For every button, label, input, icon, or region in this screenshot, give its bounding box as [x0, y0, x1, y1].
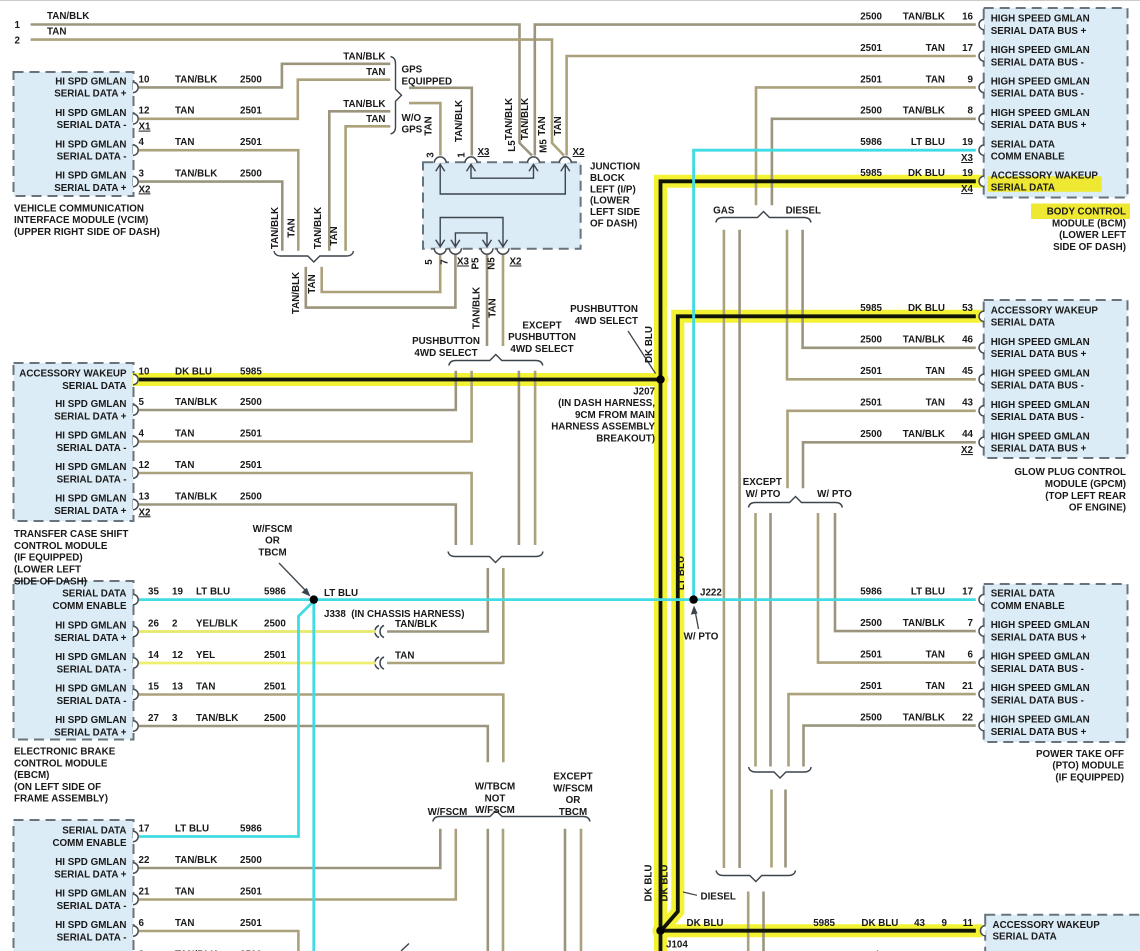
TCSCM pin 13 bump — [133, 499, 138, 509]
svg-text:SERIAL DATA BUS -: SERIAL DATA BUS - — [991, 695, 1084, 706]
module VCIM box — [14, 72, 134, 196]
wire 2 TAN top-left to junction M5 — [31, 40, 564, 156]
svg-text:(LOWER LEFT: (LOWER LEFT — [1059, 230, 1126, 241]
svg-text:SIDE OF DASH): SIDE OF DASH) — [14, 576, 87, 587]
svg-text:TAN: TAN — [196, 681, 215, 692]
svg-text:LT BLU: LT BLU — [196, 587, 230, 598]
callout arrow W/PTO to J222 — [695, 611, 699, 630]
svg-text:P5: P5 — [471, 257, 482, 270]
svg-text:(PTO) MODULE: (PTO) MODULE — [1052, 761, 1124, 772]
wire GPCM pin 43 TAN down — [788, 411, 976, 489]
svg-text:COMM ENABLE: COMM ENABLE — [52, 838, 126, 849]
svg-text:44: 44 — [962, 429, 973, 440]
svg-text:HI SPD GMLAN: HI SPD GMLAN — [55, 399, 126, 410]
inline connector on EBCM YEL/BLK wire — [380, 626, 384, 638]
svg-text:2501: 2501 — [240, 106, 262, 117]
svg-text:TAN: TAN — [926, 650, 945, 661]
wire GAS pair TAN left — [723, 230, 726, 868]
svg-text:HI SPD GMLAN: HI SPD GMLAN — [55, 171, 126, 182]
svg-text:SERIAL DATA BUS -: SERIAL DATA BUS - — [991, 412, 1084, 423]
svg-text:2500: 2500 — [264, 713, 286, 724]
junction block top pin bump 1 — [465, 157, 477, 163]
VCIM/GPS merge brace — [274, 251, 354, 262]
svg-text:35: 35 — [148, 587, 159, 598]
svg-text:LT BLU: LT BLU — [911, 137, 945, 148]
svg-text:HI SPD GMLAN: HI SPD GMLAN — [55, 77, 126, 88]
svg-text:2500: 2500 — [860, 429, 882, 440]
svg-text:TAN/BLK: TAN/BLK — [313, 207, 324, 249]
svg-text:6: 6 — [139, 918, 145, 929]
junction block bottom pin bump 5 — [434, 248, 446, 254]
wire LT BLU 5986 horizontal EBCM to PTO pin 17 — [139, 598, 976, 601]
svg-text:SERIAL DATA -: SERIAL DATA - — [57, 932, 127, 943]
svg-text:DIESEL: DIESEL — [786, 206, 821, 217]
svg-text:TAN: TAN — [366, 114, 385, 125]
module bottom-left module box — [14, 820, 134, 951]
svg-text:X2: X2 — [510, 257, 523, 268]
svg-text:HIGH SPEED GMLAN: HIGH SPEED GMLAN — [991, 108, 1090, 119]
wire merged TAN to junction pin 5 — [322, 254, 441, 292]
svg-text:OF DASH): OF DASH) — [590, 219, 637, 230]
svg-text:COMM ENABLE: COMM ENABLE — [991, 152, 1065, 163]
junction block interior connection pin7-P5 — [455, 233, 487, 246]
wire EXCEPT-W/FSCM pair TAN to page bottom — [580, 829, 583, 951]
svg-text:X2: X2 — [573, 147, 586, 158]
svg-text:NOT: NOT — [485, 793, 506, 804]
wire GPS TAN/BLK to junction pin 1 — [409, 88, 472, 156]
inline connector on EBCM YEL wire — [380, 657, 384, 669]
svg-text:J222: J222 — [700, 588, 722, 599]
svg-text:SERIAL DATA BUS +: SERIAL DATA BUS + — [991, 632, 1087, 643]
svg-text:5985: 5985 — [813, 918, 835, 929]
svg-text:3: 3 — [139, 169, 145, 180]
svg-text:SERIAL DATA +: SERIAL DATA + — [54, 869, 127, 880]
svg-text:N5: N5 — [487, 257, 498, 270]
bottom-right module pin bump — [980, 926, 985, 936]
wire TAN/BLK junction L5 to BCM pin 16 — [535, 25, 976, 156]
highlighted wire DK BLU trunk J207 down to page bottom (highlight band) — [654, 380, 667, 951]
svg-text:TAN/BLK: TAN/BLK — [196, 713, 238, 724]
highlighted wire DK BLU J104 to bottom-right module (highlight band) — [661, 924, 976, 937]
wire W/PTO TAN to PTO pin 6 — [818, 513, 976, 663]
svg-text:7: 7 — [968, 618, 974, 629]
svg-text:5985: 5985 — [860, 303, 882, 314]
svg-text:2500: 2500 — [240, 855, 262, 866]
wire GPCM pin 44 TAN/BLK down — [803, 442, 976, 488]
highlighted wire DK BLU trunk J207 to BCM X4 (conductor) — [661, 181, 976, 379]
svg-text:1: 1 — [457, 152, 468, 158]
junction block bottom pin bump N5 — [497, 248, 509, 254]
svg-text:43: 43 — [962, 398, 973, 409]
svg-text:4WD SELECT: 4WD SELECT — [414, 348, 477, 359]
svg-text:MODULE (GPCM): MODULE (GPCM) — [1045, 479, 1126, 490]
svg-text:MODULE (BCM): MODULE (BCM) — [1052, 218, 1126, 229]
svg-text:BREAKOUT): BREAKOUT) — [596, 433, 655, 444]
svg-text:(EBCM): (EBCM) — [14, 770, 49, 781]
svg-text:FRAME ASSEMBLY): FRAME ASSEMBLY) — [14, 794, 108, 805]
svg-text:BODY CONTROL: BODY CONTROL — [1047, 207, 1126, 218]
svg-text:DK BLU: DK BLU — [660, 864, 671, 901]
svg-text:LEFT (I/P): LEFT (I/P) — [590, 184, 636, 195]
svg-text:14: 14 — [148, 650, 159, 661]
bottom-left module pin 6 bump — [133, 926, 138, 936]
svg-text:TAN: TAN — [926, 43, 945, 54]
wire PTO pin 22 TAN/BLK down — [804, 726, 976, 767]
junction block bottom pin arrow x=440.2 — [436, 240, 445, 247]
wire final pair TAN to page bottom — [747, 892, 750, 951]
svg-text:HI SPD GMLAN: HI SPD GMLAN — [55, 684, 126, 695]
svg-text:12: 12 — [139, 106, 150, 117]
svg-text:7: 7 — [440, 259, 451, 265]
svg-text:EXCEPT: EXCEPT — [553, 772, 592, 783]
junction block top pin arrow x=565.3 — [561, 164, 570, 171]
svg-text:(TOP LEFT REAR: (TOP LEFT REAR — [1045, 491, 1126, 502]
junction dot J104 — [656, 927, 664, 935]
junction dot J222 — [689, 595, 697, 603]
svg-text:OR: OR — [265, 536, 280, 547]
svg-text:4: 4 — [139, 428, 145, 439]
junction dot J338 — [310, 595, 318, 603]
GAS/PTO merge brace bottom — [716, 871, 795, 882]
wire VCIM pin 3 TAN/BLK down to merge brace — [139, 182, 282, 251]
svg-text:HIGH SPEED GMLAN: HIGH SPEED GMLAN — [991, 77, 1090, 88]
svg-text:2500: 2500 — [264, 618, 286, 629]
svg-text:4: 4 — [139, 137, 145, 148]
svg-text:5: 5 — [424, 259, 435, 265]
svg-text:22: 22 — [139, 855, 150, 866]
module BCM box — [984, 8, 1128, 198]
junction block bottom pin bump 7 — [449, 248, 461, 254]
wire stub3 bypass — [518, 371, 521, 545]
svg-text:1: 1 — [14, 20, 20, 31]
wire stub1 to TCSCM pin 5 — [139, 371, 456, 410]
svg-text:13: 13 — [139, 491, 150, 502]
svg-text:SERIAL DATA BUS +: SERIAL DATA BUS + — [991, 727, 1087, 738]
svg-text:2501: 2501 — [240, 918, 262, 929]
svg-text:21: 21 — [962, 681, 973, 692]
svg-text:OF ENGINE): OF ENGINE) — [1069, 503, 1126, 514]
PTO merge brace — [749, 767, 812, 778]
wire stub2 to TCSCM pin 4 — [139, 371, 472, 442]
wire merged TAN/BLK to junction pin 7 — [306, 254, 456, 308]
svg-text:HIGH SPEED GMLAN: HIGH SPEED GMLAN — [991, 620, 1090, 631]
svg-text:TAN/BLK: TAN/BLK — [175, 74, 217, 85]
svg-text:VEHICLE COMMUNICATION: VEHICLE COMMUNICATION — [14, 203, 144, 214]
bottom-left module pin 22 bump — [133, 863, 138, 873]
svg-text:PUSHBUTTON: PUSHBUTTON — [570, 304, 638, 315]
GPCM pin 43 bump — [979, 406, 984, 416]
svg-text:ELECTRONIC BRAKE: ELECTRONIC BRAKE — [14, 747, 116, 758]
wire VCIM pin 4 TAN down to merge brace — [139, 150, 298, 251]
pointer line DIESEL near J104 — [683, 892, 697, 895]
svg-text:W/FSCM: W/FSCM — [553, 783, 593, 794]
svg-text:9: 9 — [968, 74, 974, 85]
svg-text:HIGH SPEED GMLAN: HIGH SPEED GMLAN — [991, 431, 1090, 442]
junction block interior connection pin3-M5 — [440, 165, 565, 194]
svg-text:SERIAL DATA: SERIAL DATA — [991, 139, 1055, 150]
svg-text:SERIAL DATA -: SERIAL DATA - — [57, 696, 127, 707]
svg-text:W/FSCM: W/FSCM — [475, 805, 515, 816]
svg-text:BLOCK: BLOCK — [590, 173, 625, 184]
PTO pin 22 bump — [979, 720, 984, 730]
svg-text:LT BLU: LT BLU — [676, 556, 687, 590]
svg-text:TAN: TAN — [47, 26, 66, 37]
svg-text:W/FSCM: W/FSCM — [428, 807, 468, 818]
svg-text:TAN: TAN — [926, 74, 945, 85]
svg-text:TBCM: TBCM — [258, 548, 286, 559]
wire W/PTO TAN/BLK to PTO pin 7 — [835, 513, 976, 631]
svg-text:LT BLU: LT BLU — [911, 587, 945, 598]
svg-text:2501: 2501 — [264, 650, 286, 661]
svg-text:W/ PTO: W/ PTO — [746, 489, 781, 500]
svg-text:HI SPD GMLAN: HI SPD GMLAN — [55, 857, 126, 868]
wire EXCEPT-W/FSCM pair TAN/BLK to page bottom — [564, 829, 567, 951]
svg-text:HI SPD GMLAN: HI SPD GMLAN — [55, 652, 126, 663]
svg-text:10: 10 — [139, 74, 150, 85]
wire EBCM pin 27 TAN/BLK down — [139, 726, 488, 762]
svg-text:SERIAL DATA BUS -: SERIAL DATA BUS - — [991, 381, 1084, 392]
svg-text:HI SPD GMLAN: HI SPD GMLAN — [55, 108, 126, 119]
svg-text:DK BLU: DK BLU — [644, 326, 655, 363]
svg-text:PUSHBUTTON: PUSHBUTTON — [508, 332, 576, 343]
junction block top pin bump M5 — [559, 157, 571, 163]
svg-text:8: 8 — [968, 106, 974, 117]
highlighted wire DK BLU trunk J207 down to page bottom (conductor) — [659, 380, 663, 951]
svg-text:EXCEPT: EXCEPT — [743, 477, 782, 488]
svg-text:EXCEPT: EXCEPT — [522, 320, 561, 331]
svg-text:TAN/BLK: TAN/BLK — [903, 713, 945, 724]
svg-text:TAN: TAN — [926, 681, 945, 692]
BCM pin 19 bump — [979, 145, 984, 155]
svg-text:HIGH SPEED GMLAN: HIGH SPEED GMLAN — [991, 368, 1090, 379]
svg-text:19: 19 — [172, 587, 183, 598]
junction block top pin arrow x=440.2 — [436, 164, 445, 171]
svg-text:2501: 2501 — [240, 137, 262, 148]
junction block bottom pin arrow x=503 — [499, 240, 508, 247]
svg-text:TAN: TAN — [175, 886, 194, 897]
BCM pin 19 text highlight — [988, 176, 1102, 192]
svg-text:M5: M5 — [539, 139, 550, 153]
GAS/DIESEL split brace — [716, 212, 811, 223]
BCM pin 19 bump — [979, 176, 984, 186]
wire LT BLU J338 branch to page bottom — [312, 600, 315, 951]
junction block bottom pin arrow x=487 — [483, 240, 492, 247]
svg-text:DK BLU: DK BLU — [687, 918, 724, 929]
svg-text:26: 26 — [148, 618, 159, 629]
EBCM pin 35 bump — [133, 594, 138, 604]
svg-text:2501: 2501 — [240, 460, 262, 471]
svg-text:X2: X2 — [139, 184, 152, 195]
svg-text:TAN/BLK: TAN/BLK — [903, 618, 945, 629]
svg-text:TRANSFER CASE SHIFT: TRANSFER CASE SHIFT — [14, 529, 128, 540]
wire GPS TAN to junction pin 3 — [409, 103, 440, 155]
wire VCIM pin 10 TAN/BLK to GPS brace — [139, 64, 390, 88]
svg-text:LEFT SIDE: LEFT SIDE — [590, 207, 641, 218]
svg-text:SERIAL DATA -: SERIAL DATA - — [57, 443, 127, 454]
svg-text:SERIAL DATA BUS +: SERIAL DATA BUS + — [991, 120, 1087, 131]
bottom-left module pin 17 bump — [133, 831, 138, 841]
svg-text:TAN: TAN — [537, 116, 548, 135]
svg-text:5985: 5985 — [860, 168, 882, 179]
svg-text:2501: 2501 — [860, 43, 882, 54]
svg-text:SERIAL DATA -: SERIAL DATA - — [57, 120, 127, 131]
svg-text:SERIAL DATA +: SERIAL DATA + — [54, 183, 127, 194]
svg-text:HIGH SPEED GMLAN: HIGH SPEED GMLAN — [991, 715, 1090, 726]
junction block top pin arrow x=533.5 — [529, 164, 538, 171]
wire W/FSCM TAN/BLK to bottom-left pin 22 — [139, 829, 440, 868]
BCM pin 17 bump — [979, 51, 984, 61]
junction block bottom pin bump P5 — [481, 248, 493, 254]
VCIM pin 4 bump — [133, 145, 138, 155]
svg-text:SERIAL DATA: SERIAL DATA — [62, 381, 126, 392]
svg-text:TAN: TAN — [395, 651, 414, 662]
svg-text:SERIAL DATA BUS +: SERIAL DATA BUS + — [991, 26, 1087, 37]
svg-text:22: 22 — [962, 713, 973, 724]
svg-text:16: 16 — [962, 12, 973, 23]
svg-text:TAN/BLK: TAN/BLK — [175, 169, 217, 180]
svg-text:X3: X3 — [478, 147, 491, 158]
junction dot J207 — [656, 375, 664, 383]
wire final pair TAN/BLK to page bottom — [762, 892, 765, 951]
EBCM pin 15 bump — [133, 689, 138, 699]
wire EXCEPT-W/PTO pair TAN/BLK — [769, 513, 772, 767]
PTO pin 21 bump — [979, 689, 984, 699]
svg-text:TBCM: TBCM — [559, 807, 587, 818]
svg-text:9: 9 — [942, 918, 948, 929]
svg-text:CONTROL MODULE: CONTROL MODULE — [14, 758, 108, 769]
svg-text:2500: 2500 — [860, 618, 882, 629]
wire stub4 bypass — [534, 371, 537, 545]
svg-text:5985: 5985 — [240, 366, 262, 377]
svg-text:53: 53 — [962, 303, 973, 314]
svg-text:3: 3 — [172, 713, 178, 724]
svg-text:SERIAL DATA: SERIAL DATA — [62, 826, 126, 837]
svg-text:DK BLU: DK BLU — [644, 864, 655, 901]
svg-text:TAN/BLK: TAN/BLK — [175, 855, 217, 866]
wire DIESEL TAN to GPCM pin 45 — [787, 230, 976, 379]
svg-text:GPS: GPS — [402, 125, 423, 136]
svg-text:2501: 2501 — [860, 74, 882, 85]
svg-text:ACCESSORY WAKEUP: ACCESSORY WAKEUP — [991, 305, 1099, 316]
junction block top pin bump 3 — [434, 157, 446, 163]
svg-text:SERIAL DATA -: SERIAL DATA - — [57, 474, 127, 485]
svg-text:5986: 5986 — [860, 137, 882, 148]
svg-text:45: 45 — [962, 366, 973, 377]
svg-text:2501: 2501 — [240, 886, 262, 897]
svg-text:X3: X3 — [457, 257, 470, 268]
svg-text:X1: X1 — [139, 122, 152, 133]
PTO pin 7 bump — [979, 626, 984, 636]
svg-text:W/ PTO: W/ PTO — [684, 632, 719, 643]
svg-text:SERIAL DATA BUS -: SERIAL DATA BUS - — [991, 89, 1084, 100]
J207 junction highlight ring — [653, 372, 669, 388]
svg-text:HI SPD GMLAN: HI SPD GMLAN — [55, 139, 126, 150]
svg-text:HIGH SPEED GMLAN: HIGH SPEED GMLAN — [991, 14, 1090, 25]
svg-text:12: 12 — [139, 460, 150, 471]
svg-text:(IN DASH HARNESS,: (IN DASH HARNESS, — [558, 398, 655, 409]
svg-text:HI SPD GMLAN: HI SPD GMLAN — [55, 889, 126, 900]
TCSCM pin 5 bump — [133, 405, 138, 415]
svg-text:2501: 2501 — [860, 650, 882, 661]
svg-text:17: 17 — [962, 43, 973, 54]
wire TAN BCM pin 9 stub — [756, 87, 976, 205]
svg-text:HIGH SPEED GMLAN: HIGH SPEED GMLAN — [991, 337, 1090, 348]
svg-text:X2: X2 — [961, 445, 974, 456]
VCIM pin 3 bump — [133, 176, 138, 186]
module bottom-right box — [985, 915, 1140, 951]
svg-text:X3: X3 — [961, 153, 974, 164]
svg-text:2500: 2500 — [240, 169, 262, 180]
highlighted wire DK BLU GPCM53 branch to J104 (conductor) — [662, 316, 976, 930]
svg-text:TAN: TAN — [553, 116, 564, 135]
svg-text:TAN/BLK: TAN/BLK — [47, 11, 89, 22]
svg-text:SERIAL DATA +: SERIAL DATA + — [54, 411, 127, 422]
module PTO box — [984, 584, 1128, 742]
svg-text:SERIAL DATA +: SERIAL DATA + — [54, 633, 127, 644]
J104 junction highlight ring — [653, 923, 669, 939]
svg-text:DK BLU: DK BLU — [908, 168, 945, 179]
svg-text:TAN/BLK: TAN/BLK — [175, 397, 217, 408]
svg-text:21: 21 — [139, 886, 150, 897]
TCSCM pin 10 bump — [133, 374, 138, 384]
svg-text:TAN: TAN — [175, 460, 194, 471]
svg-text:SERIAL DATA BUS +: SERIAL DATA BUS + — [991, 444, 1087, 455]
GPCM pin 44 bump — [979, 437, 984, 447]
callout arrow to J338 — [279, 563, 307, 592]
4wd select merge brace lower — [448, 552, 543, 563]
svg-text:(ON LEFT SIDE OF: (ON LEFT SIDE OF — [14, 782, 101, 793]
svg-text:TAN: TAN — [175, 106, 194, 117]
svg-text:TAN/BLK: TAN/BLK — [472, 287, 483, 329]
svg-text:17: 17 — [962, 587, 973, 598]
svg-text:HIGH SPEED GMLAN: HIGH SPEED GMLAN — [991, 683, 1090, 694]
GPCM pin 45 bump — [979, 374, 984, 384]
svg-text:2500: 2500 — [860, 106, 882, 117]
junction block interior connection pin1-L5 — [471, 165, 534, 178]
svg-text:YEL/BLK: YEL/BLK — [196, 618, 238, 629]
svg-text:HI SPD GMLAN: HI SPD GMLAN — [55, 462, 126, 473]
svg-text:JUNCTION: JUNCTION — [590, 162, 640, 173]
VCIM pin 10 bump — [133, 82, 138, 92]
svg-text:TAN: TAN — [366, 67, 385, 78]
svg-text:12: 12 — [172, 650, 183, 661]
svg-text:TAN/BLK: TAN/BLK — [520, 98, 531, 140]
BCM caption highlight — [1031, 204, 1130, 220]
svg-text:HIGH SPEED GMLAN: HIGH SPEED GMLAN — [991, 400, 1090, 411]
svg-text:DK BLU: DK BLU — [908, 303, 945, 314]
wire DIESEL TAN/BLK to GPCM pin 46 — [803, 230, 976, 348]
svg-text:SERIAL DATA BUS +: SERIAL DATA BUS + — [991, 349, 1087, 360]
svg-text:SERIAL DATA BUS -: SERIAL DATA BUS - — [991, 664, 1084, 675]
wire PTO pin 21 TAN down — [789, 694, 976, 766]
svg-text:EQUIPPED: EQUIPPED — [402, 76, 453, 87]
wire TAN junction M5 to BCM pin 17 — [567, 56, 976, 156]
svg-text:HI SPD GMLAN: HI SPD GMLAN — [55, 715, 126, 726]
GPS options brace — [391, 57, 402, 134]
svg-text:27: 27 — [148, 713, 159, 724]
svg-text:46: 46 — [962, 335, 973, 346]
svg-text:(IF EQUIPPED): (IF EQUIPPED) — [1055, 773, 1124, 784]
svg-text:CONTROL MODULE: CONTROL MODULE — [14, 541, 108, 552]
svg-text:W/O: W/O — [402, 113, 422, 124]
wire TAN/BLK BCM pin 8 stub — [772, 119, 976, 206]
wire EXCEPT-W/PTO pair TAN — [754, 513, 757, 767]
wire W/O GPS TAN/BLK down — [329, 111, 390, 250]
svg-text:PUSHBUTTON: PUSHBUTTON — [412, 336, 480, 347]
wire TCSCM pin 12 TAN down — [139, 473, 472, 545]
svg-text:2: 2 — [14, 36, 20, 47]
svg-text:TAN: TAN — [175, 428, 194, 439]
